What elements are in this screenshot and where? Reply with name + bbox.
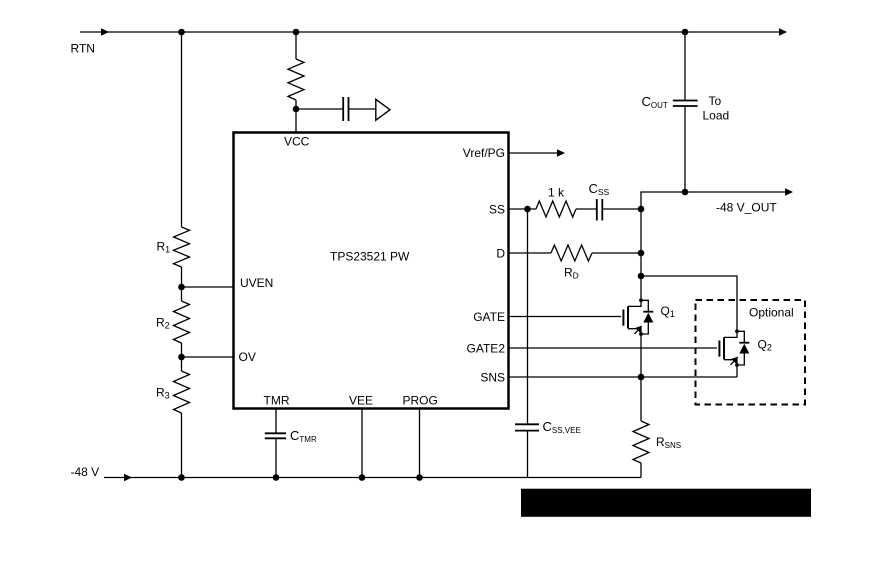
wire SNS row: [508, 376, 737, 378]
capacitor CTMR: [265, 433, 286, 438]
svg-text:-48 V_OUT: -48 V_OUT: [716, 201, 777, 215]
wire SS branch column: [527, 209, 529, 478]
capacitor (VCC bypass): [343, 97, 348, 121]
svg-text:D: D: [496, 246, 505, 260]
wire COUT column: [684, 32, 686, 192]
node rail / TMR: [273, 474, 280, 481]
node rail / PROG: [416, 474, 423, 481]
wire Q2 source to SNS: [736, 365, 738, 377]
svg-text:Load: Load: [703, 109, 730, 123]
svg-text:VEE: VEE: [349, 394, 373, 408]
arrow -48 V_OUT output: [785, 188, 793, 196]
node top rail / COUT: [682, 29, 689, 36]
node SNS / RSNS: [638, 374, 645, 381]
svg-text:RTN: RTN: [71, 42, 95, 56]
transistor Q2: [719, 329, 749, 367]
capacitor CSS,VEE: [515, 424, 539, 430]
node OV: [178, 354, 185, 361]
svg-text:GATE2: GATE2: [467, 341, 506, 355]
IC U1 TPS23521 PW box: [234, 133, 509, 409]
svg-text:PROG: PROG: [403, 394, 438, 408]
svg-text:VCC: VCC: [284, 135, 310, 149]
optional dashed box: [696, 300, 806, 405]
resistor RSNS: [633, 421, 649, 463]
node top rail / divider: [178, 29, 185, 36]
wire TMR column: [275, 409, 277, 478]
wire VCC bypass branch: [296, 108, 343, 110]
node D / RD: [638, 250, 645, 257]
svg-text:Optional: Optional: [749, 306, 794, 320]
resistor 1k: [536, 201, 576, 217]
svg-text:OV: OV: [239, 350, 256, 364]
svg-text:Vref/PG: Vref/PG: [463, 146, 505, 160]
resistor RD: [551, 245, 592, 261]
svg-text:GATE: GATE: [473, 310, 505, 324]
arrow -48V input: [124, 474, 132, 482]
node Q2 branch: [638, 273, 645, 280]
node top rail / VCC resistor: [293, 29, 300, 36]
svg-text:UVEN: UVEN: [240, 276, 273, 290]
wire RSNS column: [640, 377, 642, 478]
wire Vref/PG arrow lead: [508, 152, 557, 154]
wire RD to node: [592, 252, 641, 254]
wire VEE column: [361, 409, 363, 478]
svg-text:SS: SS: [489, 202, 505, 216]
open triangle symbol: [376, 99, 390, 120]
wire SS pin lead: [508, 208, 536, 210]
wire node column SS-D-branch: [640, 209, 642, 300]
wire GATE pin lead: [508, 316, 621, 318]
wire bypass cap to triangle: [349, 108, 376, 110]
node COUT / -48V_OUT: [682, 189, 689, 196]
svg-text:TMR: TMR: [264, 394, 290, 408]
wire bottom -48V rail: [104, 477, 641, 479]
wire Q1 source to SNS: [640, 334, 642, 377]
wire UVEN pin lead: [182, 286, 234, 288]
wire PROG column: [419, 409, 421, 478]
resistor R1: [174, 227, 190, 267]
arrow top rail output: [779, 28, 787, 36]
node SS branch: [524, 206, 531, 213]
wire -48V_OUT row: [641, 192, 788, 209]
node VCC bypass: [293, 106, 300, 113]
wire RTN top rail: [80, 31, 781, 33]
node UVEN: [178, 284, 185, 291]
node SS / CSS: [638, 206, 645, 213]
arrow RTN input: [101, 28, 109, 36]
capacitor CSS: [597, 199, 603, 221]
node rail / divider: [178, 474, 185, 481]
black bar: [521, 489, 811, 517]
node rail / VEE: [359, 474, 366, 481]
wire 1k to CSS: [576, 208, 597, 210]
arrow Vref/PG output: [557, 149, 565, 157]
resistor R3: [174, 371, 190, 413]
wire branch to Q2 drain: [641, 276, 737, 331]
capacitor COUT: [673, 101, 698, 107]
svg-text:TPS23521 PW: TPS23521 PW: [330, 250, 410, 264]
resistor (VCC pull-up, unlabeled): [288, 59, 304, 100]
wire D pin lead: [508, 252, 551, 254]
wire OV pin lead: [182, 356, 234, 358]
wire GATE2 pin lead: [508, 347, 717, 349]
resistor R2: [174, 301, 190, 343]
transistor Q1: [623, 298, 653, 336]
wire CSS to node: [603, 208, 642, 210]
svg-text:1 k: 1 k: [548, 186, 565, 200]
wire left divider column: [181, 32, 183, 478]
svg-text:SNS: SNS: [480, 370, 505, 384]
wire VCC resistor column: [295, 32, 297, 132]
svg-text:-48 V: -48 V: [71, 465, 100, 479]
svg-text:To: To: [709, 94, 722, 108]
